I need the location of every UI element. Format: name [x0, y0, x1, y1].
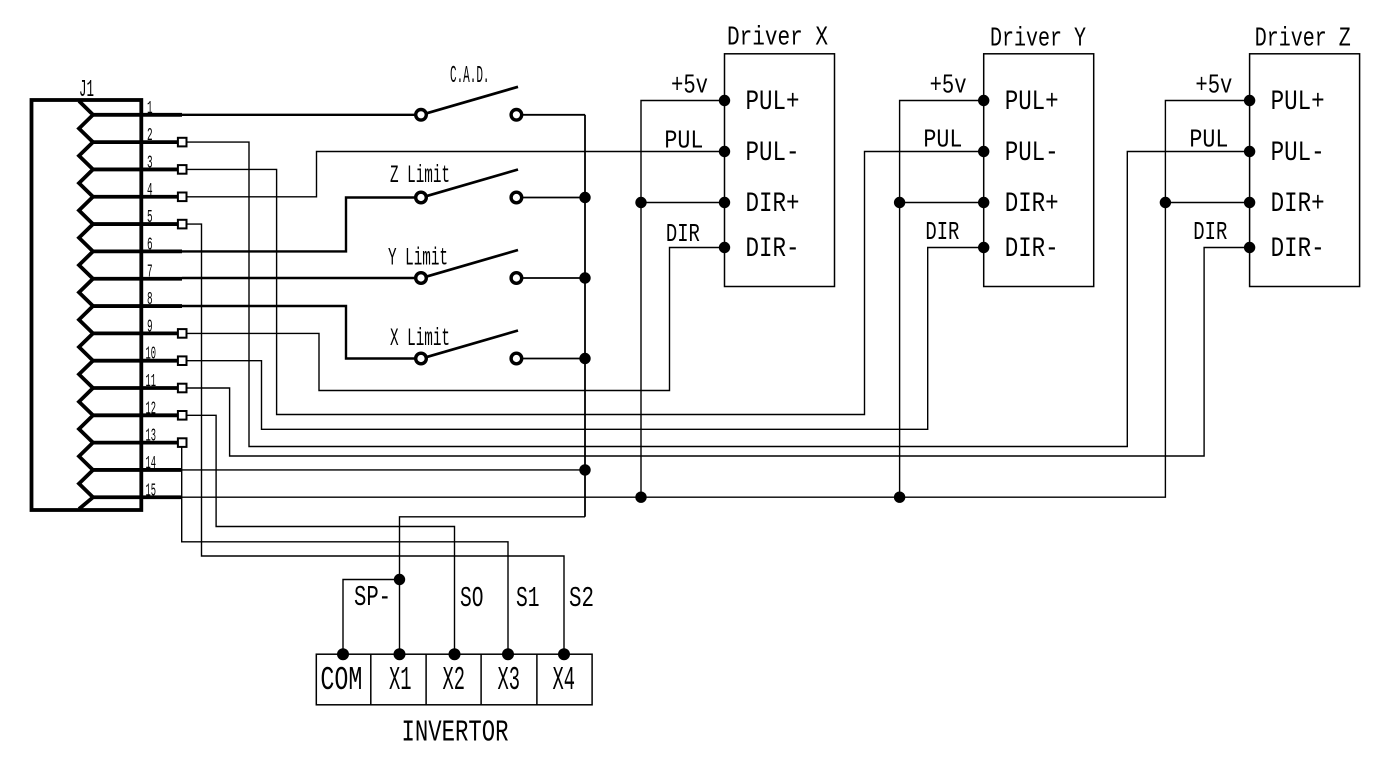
svg-text:+5v: +5v	[930, 72, 967, 102]
svg-text:DIR+: DIR+	[1005, 189, 1059, 220]
svg-text:14: 14	[146, 453, 157, 474]
svg-text:DIR-: DIR-	[1005, 234, 1059, 265]
svg-text:5: 5	[147, 207, 153, 228]
svg-text:DIR-: DIR-	[746, 234, 800, 265]
svg-text:10: 10	[146, 344, 157, 365]
svg-text:SP-: SP-	[354, 581, 391, 614]
svg-text:Z Limit: Z Limit	[390, 161, 450, 190]
svg-text:INVERTOR: INVERTOR	[402, 716, 509, 751]
svg-text:PUL: PUL	[1189, 125, 1228, 155]
svg-text:DIR+: DIR+	[1271, 189, 1325, 220]
svg-text:12: 12	[146, 398, 157, 419]
svg-text:X3: X3	[498, 662, 521, 699]
svg-text:PUL: PUL	[664, 126, 703, 156]
svg-text:X4: X4	[553, 662, 576, 699]
svg-text:1: 1	[147, 98, 153, 119]
svg-text:13: 13	[146, 426, 157, 447]
svg-text:X1: X1	[389, 662, 412, 699]
svg-text:DIR: DIR	[666, 219, 700, 249]
svg-text:DIR: DIR	[925, 217, 959, 247]
svg-text:9: 9	[147, 316, 153, 337]
svg-text:X2: X2	[443, 662, 466, 699]
svg-text:S1: S1	[516, 582, 540, 615]
svg-text:3: 3	[147, 152, 153, 173]
svg-text:4: 4	[147, 180, 153, 201]
svg-text:SO: SO	[460, 582, 484, 615]
svg-text:COM: COM	[320, 662, 362, 699]
svg-text:PUL+: PUL+	[1005, 87, 1059, 118]
svg-text:Driver X: Driver X	[727, 24, 828, 54]
svg-text:PUL+: PUL+	[746, 87, 800, 118]
svg-text:PUL-: PUL-	[1005, 138, 1059, 169]
svg-text:2: 2	[147, 125, 153, 146]
svg-text:Driver Y: Driver Y	[990, 25, 1086, 55]
svg-text:PUL-: PUL-	[746, 138, 800, 169]
svg-text:PUL-: PUL-	[1271, 138, 1325, 169]
svg-text:DIR-: DIR-	[1271, 234, 1325, 265]
svg-text:8: 8	[147, 289, 153, 310]
svg-text:C.A.D.: C.A.D.	[450, 63, 490, 90]
svg-text:X Limit: X Limit	[390, 324, 450, 353]
svg-text:J1: J1	[79, 77, 94, 104]
svg-text:Driver Z: Driver Z	[1255, 25, 1351, 55]
svg-text:+5v: +5v	[671, 72, 708, 102]
svg-text:PUL+: PUL+	[1271, 87, 1325, 118]
svg-text:DIR+: DIR+	[746, 189, 800, 220]
svg-text:PUL: PUL	[923, 125, 962, 155]
svg-text:+5v: +5v	[1195, 72, 1232, 102]
svg-text:6: 6	[147, 234, 153, 255]
svg-text:15: 15	[146, 480, 157, 501]
svg-text:S2: S2	[569, 582, 594, 615]
svg-text:Y Limit: Y Limit	[388, 244, 448, 273]
svg-text:DIR: DIR	[1193, 217, 1227, 247]
svg-text:11: 11	[146, 371, 157, 392]
svg-text:7: 7	[147, 262, 153, 283]
